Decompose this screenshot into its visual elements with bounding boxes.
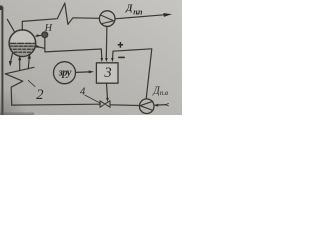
svg-text:п.п: п.п <box>133 7 143 16</box>
arrowhead: feedwater inlet into sensor <box>154 104 158 107</box>
svg-text:H: H <box>44 23 53 34</box>
leader line for label 4 <box>85 95 101 103</box>
svg-text:зру: зру <box>58 67 72 78</box>
wire: setpoint to regulator <box>76 71 90 74</box>
svg-text:3: 3 <box>103 65 111 81</box>
leader line for label 2 <box>28 80 35 86</box>
steam outlet wire from drum top <box>21 21 23 30</box>
left scan edge band <box>1 7 3 115</box>
feedwater pipe left segment <box>12 103 101 106</box>
arrowhead: setpoint arrow <box>89 70 94 73</box>
furnace circuit zigzag 2 <box>5 67 34 105</box>
arrowhead: Dpp output arrow <box>163 13 172 17</box>
arrowhead: level signal into box <box>101 58 104 62</box>
drum water level shading <box>9 43 36 57</box>
feedwater inlet stub <box>155 104 167 107</box>
top-left scan blob <box>0 6 3 11</box>
bottom-left vignette <box>0 70 45 115</box>
arrowhead: feedwater signal into box <box>111 58 114 62</box>
steam flow sensor (circle) <box>99 11 115 27</box>
downcomer wire with arrow <box>10 53 12 63</box>
drum top-left spoke <box>7 19 14 31</box>
arrowhead: riser 1 up <box>18 55 21 60</box>
riser wire 1 <box>19 59 21 70</box>
feedwater sensor chevron <box>140 101 153 110</box>
riser wire 2 <box>28 58 29 69</box>
wire: steam flow signal down to regulator <box>105 26 108 58</box>
svg-text:2: 2 <box>36 87 43 103</box>
lower drum tap wire <box>36 46 45 48</box>
arrowhead: riser 2 up <box>28 54 31 59</box>
minus sign <box>118 56 125 58</box>
svg-text:Д: Д <box>125 3 133 13</box>
wire: regulator output to valve <box>107 83 108 99</box>
plus sign <box>118 42 123 48</box>
feedwater flow sensor (circle) <box>139 99 154 114</box>
bottom edge shadow <box>0 113 34 116</box>
arrowhead: downcomer down <box>9 61 12 67</box>
wire: level signal to regulator <box>45 38 102 59</box>
paper background <box>0 0 182 115</box>
steam output line Dpp <box>115 15 164 19</box>
arrowhead: regulator output at valve <box>106 98 109 102</box>
upper drum tap wire to level sensor <box>36 34 42 37</box>
superheated steam line with break zigzag <box>22 3 99 24</box>
level sensor H (small circle) <box>42 32 48 38</box>
arrowhead: steam flow signal into box <box>105 58 108 62</box>
arrowhead: lower drum tap <box>36 45 40 48</box>
svg-text:п.в: п.в <box>160 88 169 97</box>
stub tail feather <box>166 103 169 106</box>
setpoint unit ZRU circle <box>54 62 76 84</box>
feedwater pipe right segment <box>110 104 139 107</box>
wire: feedwater flow signal to regulator <box>113 49 152 99</box>
steam flow sensor chevron <box>101 15 114 24</box>
boiler drum <box>9 30 36 57</box>
regulator box 3 <box>96 63 118 83</box>
svg-text:4: 4 <box>80 87 86 98</box>
control valve (bowtie) <box>100 101 110 107</box>
arrowhead: upper drum tap <box>37 34 41 37</box>
